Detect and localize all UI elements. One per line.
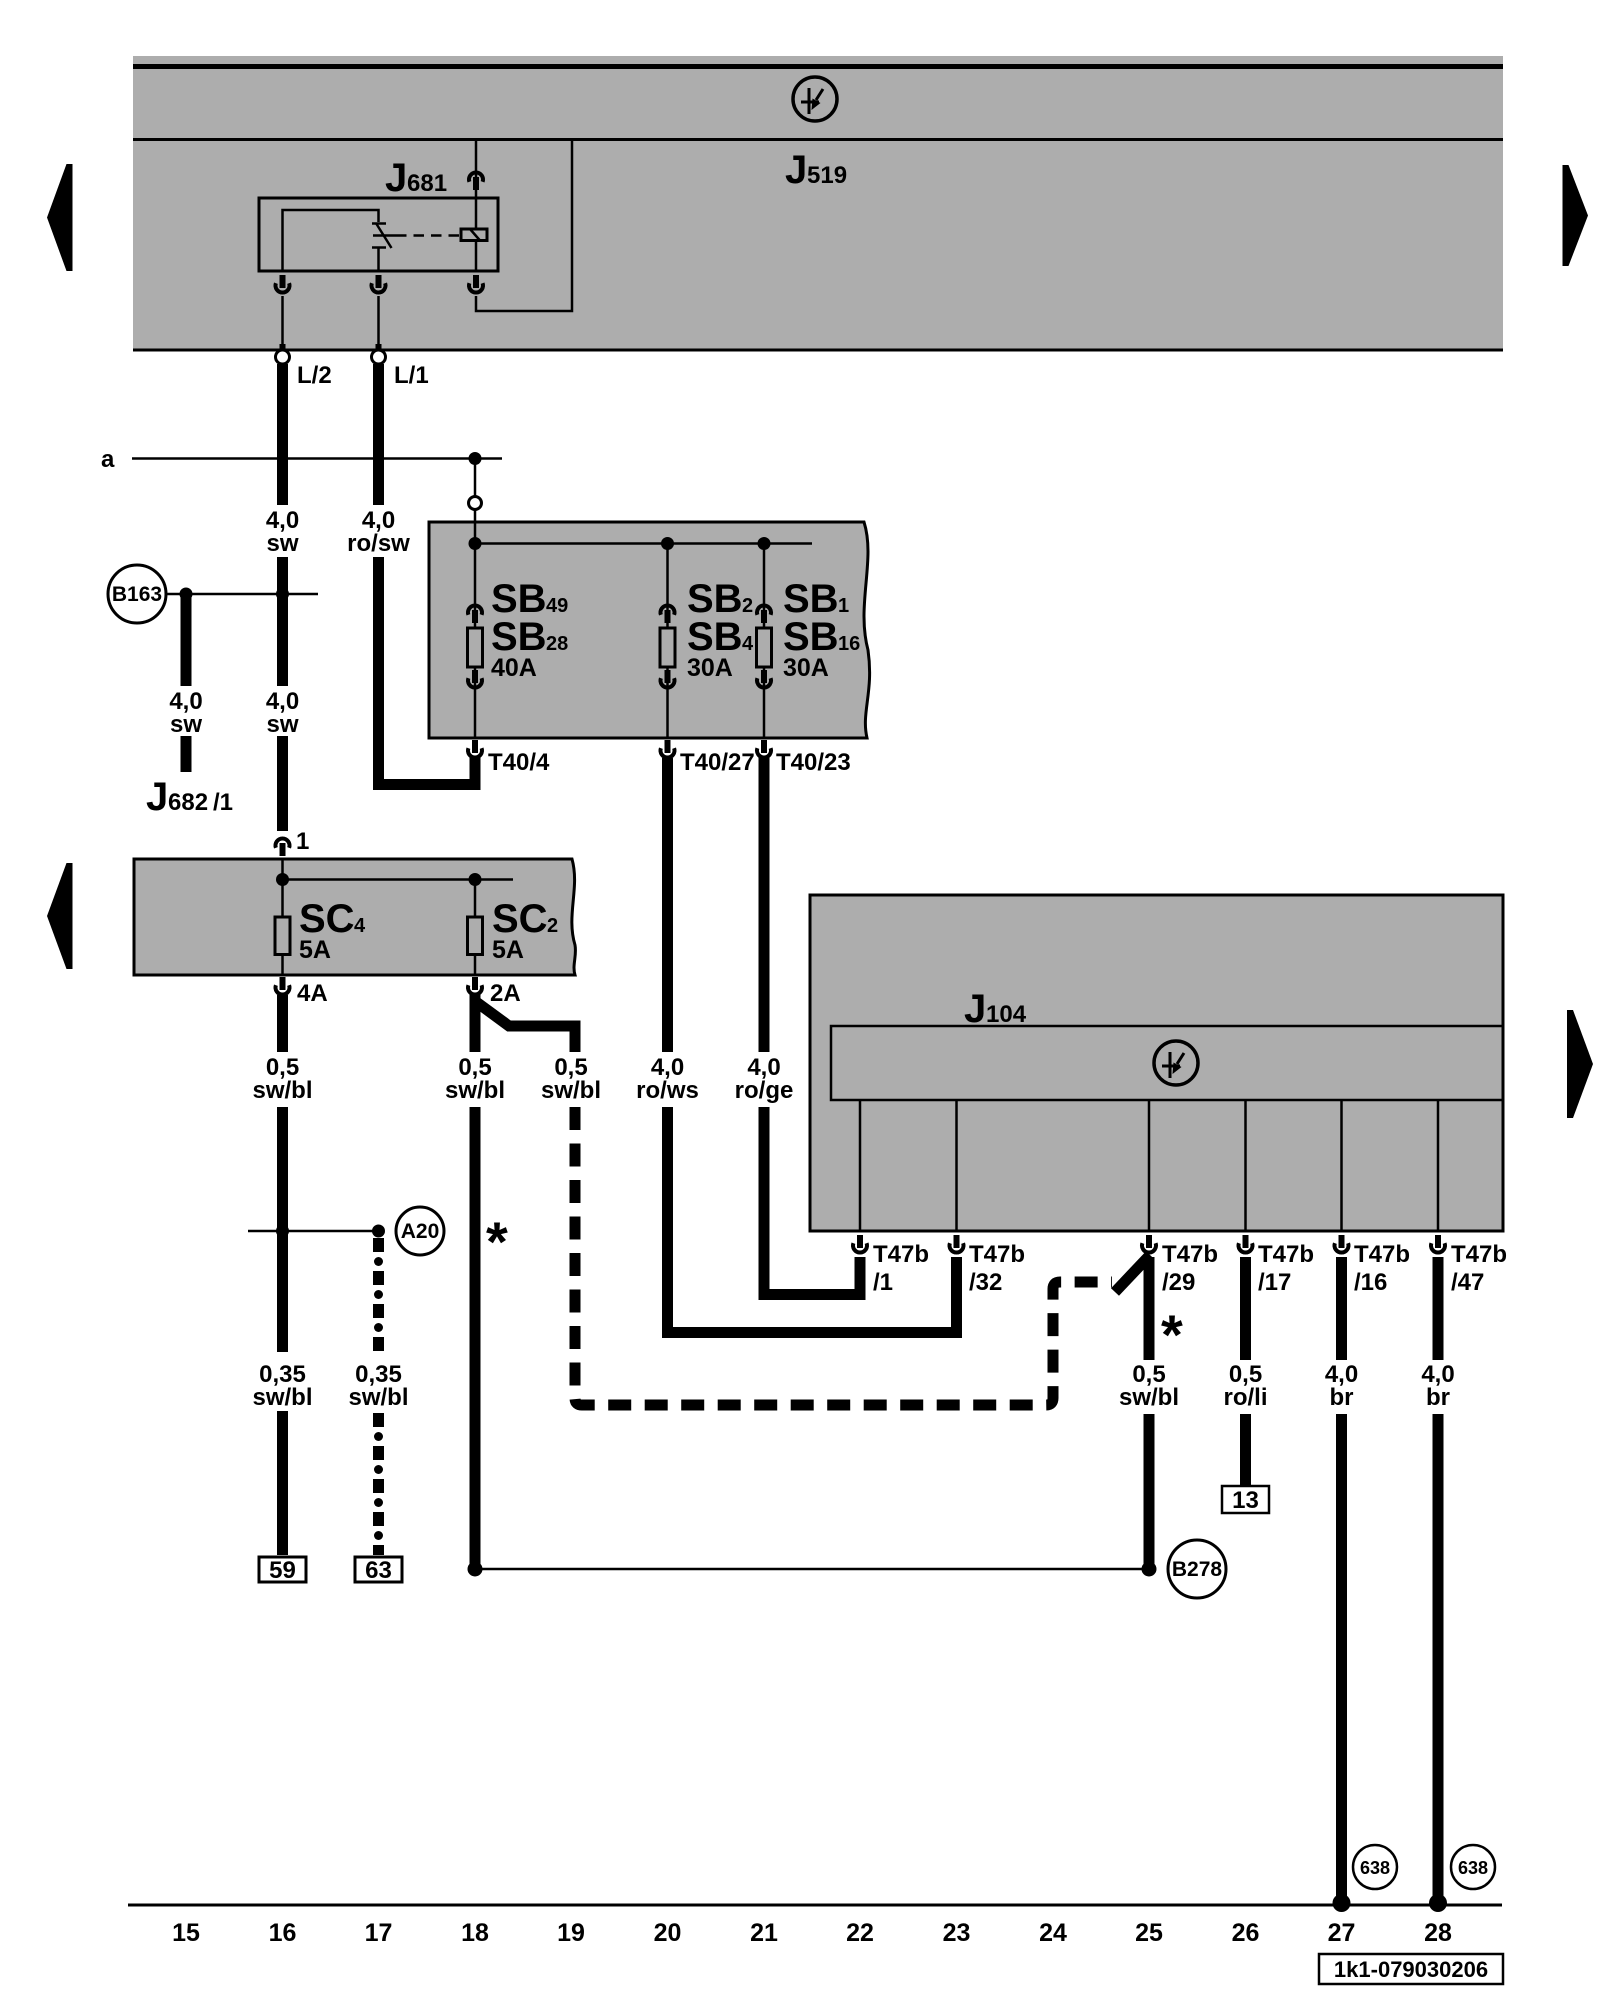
svg-text:17: 17 <box>365 1919 393 1947</box>
terminal T47b/32 <box>950 1235 1026 1296</box>
label J519 <box>785 148 847 192</box>
svg-text:ro/li: ro/li <box>1223 1384 1267 1411</box>
wire 0,35 sw/bl (track 16) <box>252 1361 312 1555</box>
svg-text:2: 2 <box>742 595 753 617</box>
pin lead T47b/1 <box>859 1100 862 1231</box>
pin 1 of SC panel <box>276 828 310 856</box>
relay J681 switch contact <box>372 224 396 272</box>
svg-text:J: J <box>146 775 168 819</box>
svg-text:sw: sw <box>266 711 298 738</box>
pin lead T47b/47 <box>1437 1100 1440 1231</box>
label J682/1 <box>146 775 233 819</box>
svg-text:sw/bl: sw/bl <box>252 1077 312 1104</box>
terminal T40/23 <box>757 740 851 776</box>
svg-text:L/2: L/2 <box>297 362 332 389</box>
svg-text:18: 18 <box>461 1919 489 1947</box>
svg-text:T47b: T47b <box>1258 1241 1314 1268</box>
svg-text:sw/bl: sw/bl <box>348 1384 408 1411</box>
relay J681 coil feed wire (top) <box>475 141 478 229</box>
svg-text:/1: /1 <box>873 1269 893 1296</box>
diagram code plate <box>1319 1954 1503 1984</box>
wire 4,0 br (track 28, ground) <box>1421 1257 1454 1912</box>
svg-text:*: * <box>1161 1303 1183 1366</box>
svg-text:49: 49 <box>546 595 568 617</box>
wire 4,0 br (track 27, ground) <box>1325 1257 1358 1912</box>
svg-text:/47: /47 <box>1451 1269 1484 1296</box>
svg-text:4A: 4A <box>297 980 328 1007</box>
connector A20 <box>396 1207 444 1255</box>
fuse panel SC body <box>134 859 575 975</box>
svg-text:T47b: T47b <box>1451 1241 1507 1268</box>
pin lead T47b/17 <box>1244 1100 1247 1231</box>
terminal T47b/17 <box>1239 1235 1315 1296</box>
terminal 2A <box>468 977 521 1007</box>
svg-text:sw: sw <box>170 711 202 738</box>
svg-text:br: br <box>1426 1384 1450 1411</box>
svg-text:T47b: T47b <box>969 1241 1025 1268</box>
wire 4,0 ro/sw (L/1 drop) <box>347 364 475 785</box>
node a rail <box>101 446 502 473</box>
svg-text:/1: /1 <box>213 789 233 816</box>
svg-text:63: 63 <box>365 1557 392 1584</box>
svg-text:16: 16 <box>838 633 860 655</box>
terminal T40/27 <box>661 740 755 776</box>
svg-text:A20: A20 <box>401 1220 440 1243</box>
svg-text:SB: SB <box>491 615 547 659</box>
svg-text:T40/4: T40/4 <box>488 749 550 776</box>
svg-text:5A: 5A <box>492 936 524 964</box>
node A20 rail <box>248 1225 385 1238</box>
svg-text:2: 2 <box>547 915 558 937</box>
svg-text:40A: 40A <box>491 654 537 682</box>
svg-text:22: 22 <box>846 1919 874 1947</box>
svg-text:24: 24 <box>1039 1919 1067 1947</box>
svg-text:59: 59 <box>269 1557 296 1584</box>
svg-text:/32: /32 <box>969 1269 1002 1296</box>
label J104 <box>964 987 1027 1031</box>
svg-text:638: 638 <box>1458 1858 1488 1878</box>
wire from node a to fuse panel <box>474 459 477 497</box>
svg-text:B278: B278 <box>1172 1558 1223 1581</box>
terminal T47b/47 <box>1431 1235 1507 1296</box>
relay J681 internal wire loop <box>283 210 379 271</box>
diagnostic K symbol of J519 <box>793 77 837 121</box>
fuse SB1/SB16 30A <box>757 543 861 738</box>
page arrow left (top) <box>47 164 73 271</box>
relay J681 coil <box>461 229 487 241</box>
svg-text:2A: 2A <box>490 980 521 1007</box>
svg-text:SB: SB <box>687 615 743 659</box>
fuse panel SB internal bus <box>469 537 813 550</box>
svg-text:4: 4 <box>354 915 366 937</box>
svg-text:B163: B163 <box>112 583 162 606</box>
svg-text:SC: SC <box>492 897 548 941</box>
svg-text:T40/23: T40/23 <box>776 749 851 776</box>
svg-text:26: 26 <box>1232 1919 1260 1947</box>
svg-text:T47b: T47b <box>873 1241 929 1268</box>
svg-text:L/1: L/1 <box>394 362 429 389</box>
svg-text:/17: /17 <box>1258 1269 1291 1296</box>
relay J681 pin terminal (coil bottom) <box>469 275 483 293</box>
dashed wire run to T47b/29 <box>575 1107 1112 1405</box>
svg-text:/16: /16 <box>1354 1269 1387 1296</box>
terminal T47b/1 <box>853 1235 929 1296</box>
relay J681 pin terminal (top) <box>469 172 483 190</box>
wire 4,0 sw (continuation to SC panel) <box>266 688 299 831</box>
svg-text:104: 104 <box>986 1001 1027 1028</box>
link wire between track 18 and B278 <box>468 1562 1157 1577</box>
svg-text:30A: 30A <box>783 654 829 682</box>
svg-text:J: J <box>385 156 407 200</box>
label J681 <box>385 156 447 200</box>
wire 4,0 ro/ge (track 21 to T47b/1) <box>735 758 860 1295</box>
svg-text:sw: sw <box>266 530 298 557</box>
pin lead T47b/29 <box>1148 1100 1151 1231</box>
fuse SB2/SB4 30A <box>660 543 754 738</box>
terminal 63 <box>355 1557 402 1584</box>
wire 0,5 sw/bl (track 25 to B278) <box>1119 1257 1179 1569</box>
pin lead T47b/32 <box>955 1100 958 1231</box>
svg-text:682: 682 <box>168 789 208 816</box>
pin lead T47b/16 <box>1340 1100 1343 1231</box>
relay J681 outline <box>259 198 498 271</box>
connector B163 <box>108 565 318 623</box>
svg-text:4: 4 <box>742 633 754 655</box>
terminal 13 <box>1222 1486 1269 1514</box>
connector B278 <box>1168 1540 1226 1598</box>
wire 0,5 sw/bl (SC2 output, track 18) <box>445 995 505 1569</box>
svg-text:5A: 5A <box>299 936 331 964</box>
svg-text:16: 16 <box>269 1919 297 1947</box>
svg-text:638: 638 <box>1360 1858 1390 1878</box>
control unit J104 body <box>810 895 1503 1231</box>
svg-text:a: a <box>101 446 115 473</box>
terminal 59 <box>259 1557 306 1584</box>
svg-text:30A: 30A <box>687 654 733 682</box>
wire 4,0 ro/ws (track 20 to T47b/32) <box>636 758 956 1333</box>
terminal 4A <box>276 977 328 1007</box>
page arrow left (middle) <box>47 863 73 969</box>
svg-text:19: 19 <box>557 1919 585 1947</box>
svg-text:SB: SB <box>783 615 839 659</box>
svg-text:sw/bl: sw/bl <box>1119 1384 1179 1411</box>
svg-text:ro/sw: ro/sw <box>347 530 410 557</box>
terminal T47b/16 <box>1335 1235 1411 1296</box>
svg-text:br: br <box>1330 1384 1354 1411</box>
svg-text:/29: /29 <box>1162 1269 1195 1296</box>
svg-text:ro/ws: ro/ws <box>636 1077 699 1104</box>
svg-text:27: 27 <box>1328 1919 1356 1947</box>
svg-text:SC: SC <box>299 897 355 941</box>
svg-text:*: * <box>486 1210 508 1273</box>
fuse SB49/SB28 40A <box>468 510 569 738</box>
svg-text:15: 15 <box>172 1919 200 1947</box>
svg-text:28: 28 <box>1424 1919 1452 1947</box>
svg-text:T47b: T47b <box>1162 1241 1218 1268</box>
wire 4,0 sw to J682/1 <box>169 594 202 772</box>
wire 0,5 ro/li (track 26) <box>1223 1257 1267 1486</box>
svg-text:sw/bl: sw/bl <box>252 1384 312 1411</box>
svg-text:681: 681 <box>407 170 447 197</box>
connector on node a drop <box>469 497 482 510</box>
relay plate / fuse box J519 body <box>133 56 1503 351</box>
control unit J104 inner block <box>831 1026 1503 1100</box>
svg-text:23: 23 <box>943 1919 971 1947</box>
svg-text:1k1-079030206: 1k1-079030206 <box>1334 1957 1488 1982</box>
wire 0,5 sw/bl (SC4 output, track 16) <box>252 995 312 1352</box>
wire 0,35 sw/bl dash-dot (track 17) <box>348 1238 408 1555</box>
svg-text:25: 25 <box>1135 1919 1163 1947</box>
svg-text:T40/27: T40/27 <box>680 749 755 776</box>
svg-text:13: 13 <box>1232 1487 1259 1514</box>
relay J681 actuation dashed link <box>396 234 461 237</box>
wire 4,0 sw (L/2 drop) <box>266 364 299 686</box>
fuse panel SC internal bus <box>276 873 513 886</box>
ground mark 638 (track 28) <box>1451 1845 1495 1889</box>
bottom track rail <box>128 1904 1502 1907</box>
relay J681 pin terminal (switch bottom) <box>372 275 386 352</box>
page arrow right (top) <box>1563 165 1589 266</box>
svg-text:sw/bl: sw/bl <box>541 1077 601 1104</box>
svg-text:28: 28 <box>546 633 568 655</box>
fuse panel SB body <box>429 522 870 738</box>
ground mark 638 (track 27) <box>1353 1845 1397 1889</box>
svg-text:20: 20 <box>654 1919 682 1947</box>
relay J681 pin terminal (left) <box>276 275 290 352</box>
terminal T47b/29 <box>1142 1235 1218 1296</box>
svg-text:21: 21 <box>750 1919 778 1947</box>
svg-text:519: 519 <box>807 162 847 189</box>
svg-text:ro/ge: ro/ge <box>735 1077 794 1104</box>
svg-text:J: J <box>964 987 986 1031</box>
fuse SC2 5A <box>468 879 559 975</box>
terminal T40/4 <box>468 740 550 776</box>
svg-text:1: 1 <box>296 828 309 855</box>
fuse SC4 5A <box>275 860 366 975</box>
connector L/2 <box>276 350 332 389</box>
svg-text:1: 1 <box>838 595 849 617</box>
svg-text:J: J <box>785 148 807 192</box>
relay J681 coil return wire loop <box>476 141 572 311</box>
svg-text:sw/bl: sw/bl <box>445 1077 505 1104</box>
page arrow right (middle) <box>1567 1010 1593 1118</box>
diagnostic K symbol of J104 <box>1154 1041 1198 1085</box>
dashed wire junction diagonal <box>1115 1255 1150 1292</box>
branch wire 0,5 sw/bl to dashed run (track 19) <box>475 996 601 1104</box>
track numbers 15-28 <box>172 1919 1452 1947</box>
connector L/1 <box>372 350 429 389</box>
svg-text:T47b: T47b <box>1354 1241 1410 1268</box>
